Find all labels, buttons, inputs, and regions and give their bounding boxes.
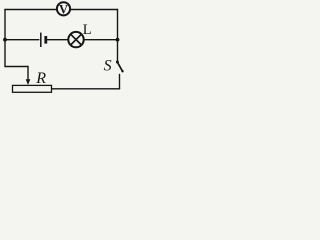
battery cell long plate <box>40 33 42 47</box>
wire voltmeter to top-right corner <box>71 9 118 11</box>
svg-text:R: R <box>35 70 46 87</box>
wire left vertical <box>4 10 6 67</box>
switch blade tip <box>121 70 123 72</box>
svg-text:L: L <box>83 22 92 38</box>
lamp L circle <box>68 32 83 47</box>
lamp L cross <box>71 34 82 45</box>
wire battery row left <box>5 39 39 41</box>
wire bottom-left horizontal to slider <box>5 66 28 68</box>
voltmeter U1 (V) <box>57 2 70 15</box>
wire bottom horizontal <box>52 88 120 90</box>
svg-text:S: S <box>104 58 112 75</box>
wire battery to lamp <box>48 39 69 41</box>
node left junction <box>3 38 7 42</box>
wire slider vertical <box>27 67 29 81</box>
rheostat R body <box>13 85 52 92</box>
wire top-left horizontal (left node to voltmeter) <box>5 9 57 11</box>
svg-text:V: V <box>59 2 68 16</box>
rheostat R slider arrowhead <box>26 79 31 85</box>
background <box>0 0 129 96</box>
wire switch lower contact vertical <box>119 75 121 89</box>
wire lamp to right vertical <box>84 39 118 41</box>
battery cell short thick plate <box>44 36 47 44</box>
node right junction <box>116 38 120 42</box>
switch S blade <box>117 62 122 71</box>
switch S pivot contact <box>116 61 119 64</box>
wire right vertical (top corner to switch) <box>117 10 119 62</box>
